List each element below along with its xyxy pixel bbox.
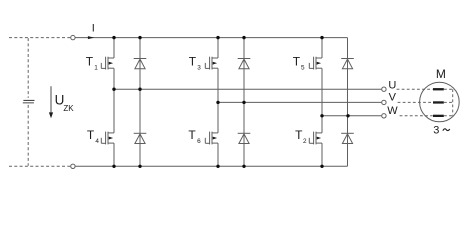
diode leg3 lower bbox=[341, 133, 354, 143]
arrow I current bbox=[88, 36, 94, 39]
wire: leg3 diode column bbox=[347, 38, 349, 167]
transistor T2 bbox=[309, 132, 322, 145]
svg-text:T: T bbox=[87, 128, 95, 142]
terminal: DC+ input circle bbox=[71, 35, 75, 39]
svg-text:T: T bbox=[86, 54, 94, 68]
wire: dashed star-point links inside motor bbox=[444, 89, 453, 116]
svg-text:5: 5 bbox=[301, 65, 305, 72]
wire: positive rail bbox=[76, 37, 348, 39]
wire: leg1 diode column bbox=[139, 38, 141, 167]
wire: leg2 transistor column bbox=[217, 38, 219, 167]
junction: phase V node dots bbox=[216, 101, 245, 104]
svg-text:T: T bbox=[295, 128, 303, 142]
svg-text:V: V bbox=[389, 92, 397, 104]
label T1 bbox=[86, 54, 99, 71]
svg-text:M: M bbox=[436, 67, 446, 81]
label T2 bbox=[295, 128, 307, 145]
capacitor C (DC link) bbox=[23, 100, 35, 102]
transistor T3 bbox=[205, 57, 218, 70]
svg-text:W: W bbox=[387, 105, 398, 117]
diode leg3 upper bbox=[341, 59, 354, 69]
motor winding bar W bbox=[433, 115, 444, 117]
svg-text:4: 4 bbox=[95, 138, 99, 145]
wire: leg1 transistor column bbox=[113, 38, 115, 167]
label T3 bbox=[189, 54, 201, 71]
transistor T4 bbox=[101, 132, 114, 145]
wire: phase W output bbox=[322, 115, 381, 117]
junction: positive rail dots bbox=[112, 36, 323, 39]
terminal: phase U circle bbox=[382, 87, 386, 91]
svg-text:I: I bbox=[92, 23, 95, 35]
wire: leg2 diode column bbox=[243, 38, 245, 167]
motor winding bar U bbox=[433, 88, 444, 90]
terminal: phase V circle bbox=[382, 100, 386, 104]
wire: DC+ dashed lead top-left bbox=[9, 37, 70, 39]
svg-text:T: T bbox=[293, 54, 301, 68]
wire: leg3 transistor column bbox=[321, 38, 323, 167]
arrow UZK voltage bbox=[49, 86, 53, 118]
wire: dashed DC-link vertical (lower part) bbox=[27, 105, 29, 166]
wire: dashed U to motor bbox=[397, 88, 433, 90]
svg-text:T: T bbox=[188, 128, 196, 142]
svg-text:6: 6 bbox=[197, 138, 201, 145]
wire: dashed V to motor bbox=[398, 101, 433, 103]
wire: phase U output bbox=[114, 88, 381, 90]
svg-text:ZK: ZK bbox=[63, 104, 74, 113]
transistor T6 bbox=[205, 132, 218, 145]
svg-text:2: 2 bbox=[303, 138, 307, 145]
junction: phase U node dots bbox=[112, 88, 141, 91]
wire: DC- dashed lead bottom-left bbox=[9, 165, 70, 167]
wire: phase V output bbox=[218, 101, 381, 103]
diode leg1 upper bbox=[134, 59, 147, 69]
motor M circle bbox=[420, 82, 460, 122]
label T5 bbox=[293, 54, 305, 71]
label UZK bbox=[55, 93, 75, 113]
svg-text:T: T bbox=[189, 54, 197, 68]
motor winding bar V bbox=[433, 101, 444, 103]
diode leg1 lower bbox=[134, 133, 147, 143]
transistor T1 bbox=[101, 57, 114, 70]
terminal: DC- input circle bbox=[71, 164, 75, 168]
junction: phase W node dots bbox=[320, 114, 349, 117]
label T6 bbox=[188, 128, 201, 145]
transistor T5 bbox=[309, 57, 322, 70]
wire: negative rail bbox=[76, 165, 348, 167]
svg-text:3: 3 bbox=[433, 124, 439, 136]
diode leg2 upper bbox=[238, 59, 251, 69]
svg-text:3: 3 bbox=[197, 65, 201, 72]
terminal: phase W circle bbox=[382, 114, 386, 118]
wire: dashed W to motor bbox=[400, 115, 433, 117]
junction: negative rail dots bbox=[112, 165, 323, 168]
label T4 bbox=[87, 128, 100, 145]
diode leg2 lower bbox=[238, 133, 251, 143]
svg-text:1: 1 bbox=[94, 65, 98, 72]
svg-text:U: U bbox=[388, 79, 396, 91]
wire: dashed DC-link vertical (upper part) bbox=[27, 38, 29, 98]
